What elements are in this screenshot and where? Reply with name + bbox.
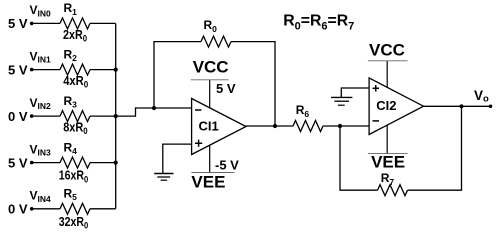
label 32xR0: [59, 215, 88, 231]
node output-feedback junction CI2: [459, 104, 463, 108]
label VEE CI1: [191, 173, 225, 192]
label 5 V input VIN3: [8, 155, 28, 170]
label -5 V rail CI1: [215, 157, 239, 172]
svg-text:VEE: VEE: [371, 153, 405, 172]
op-amp CI1: [192, 99, 246, 155]
node output-feedback junction CI1: [273, 124, 277, 128]
svg-text:5 V: 5 V: [216, 81, 236, 96]
label 2xR0: [63, 28, 87, 44]
wire bus to CI1 inverting input (jog): [116, 108, 192, 116]
label 4xR0: [63, 74, 88, 90]
label R6: [296, 103, 310, 119]
svg-text:4xR0: 4xR0: [63, 74, 88, 90]
wire R6 to CI2 inverting input: [323, 125, 369, 127]
svg-text:VIN3: VIN3: [30, 142, 52, 157]
wire R0 to output vertical: [231, 42, 275, 126]
resistor R3: [60, 111, 90, 122]
svg-text:R4: R4: [64, 140, 78, 156]
wire R7 feedback loop: [340, 126, 378, 190]
label VCC CI2: [369, 40, 405, 59]
label VIN4: [30, 189, 52, 204]
label 5 V input VIN0: [8, 16, 28, 31]
svg-text:CI2: CI2: [376, 98, 396, 113]
svg-text:CI1: CI1: [199, 119, 219, 134]
label R1: [64, 1, 78, 17]
resistor R5: [60, 203, 90, 214]
label VIN2: [30, 96, 52, 111]
label R4: [64, 140, 78, 156]
label VCC CI1: [193, 57, 229, 76]
svg-text:0 V: 0 V: [8, 109, 28, 124]
label 0 V input VIN2: [8, 109, 28, 124]
ground CI2: [331, 97, 352, 105]
power VEE rail CI1: [191, 145, 234, 172]
label Vo: [474, 88, 489, 104]
node VIN1 terminal: [30, 68, 34, 72]
svg-text:Vo: Vo: [474, 88, 489, 104]
wire ground to CI1 non-inverting input: [163, 144, 192, 173]
wire R4 to bus: [90, 162, 116, 164]
node VIN3 terminal: [30, 161, 34, 165]
wire R7 to output vertical: [408, 106, 462, 190]
svg-text:R0: R0: [204, 18, 218, 34]
label CI1: [199, 119, 219, 134]
label R3: [64, 94, 78, 110]
node VIN4 terminal: [30, 207, 34, 211]
wire summing bus vertical: [115, 23, 117, 208]
label R0: [204, 18, 218, 34]
svg-text:16xR0: 16xR0: [59, 169, 88, 185]
label 5 V input VIN1: [8, 62, 28, 77]
svg-text:VCC: VCC: [193, 57, 229, 76]
label R5: [64, 187, 78, 203]
wire CI2 output to Vo: [424, 105, 491, 107]
power VCC rail CI2: [368, 61, 408, 88]
svg-text:R1: R1: [64, 1, 78, 17]
label VIN1: [30, 49, 52, 64]
wire ground to CI2 non-inverting input: [341, 88, 369, 97]
node bus-R2 junction: [114, 68, 118, 72]
svg-text:5 V: 5 V: [8, 16, 28, 31]
wire VIN1 to R2: [32, 69, 60, 71]
wire R2 to bus: [90, 69, 116, 71]
wire VIN2 to R3: [32, 115, 60, 117]
svg-text:VIN4: VIN4: [30, 189, 52, 204]
node bus-R3 junction: [114, 114, 118, 118]
node VIN0 terminal: [30, 22, 34, 26]
resistor R0: [201, 36, 231, 47]
svg-text:VEE: VEE: [191, 173, 225, 192]
svg-text:R0=R6=R7: R0=R6=R7: [283, 13, 354, 33]
resistor R7: [378, 185, 408, 196]
wire VIN3 to R4: [32, 162, 60, 164]
svg-text:R3: R3: [64, 94, 78, 110]
ground CI1: [154, 174, 173, 181]
wire R5 to bus: [90, 208, 116, 210]
label VIN3: [30, 142, 52, 157]
power VEE rail CI2: [368, 125, 408, 154]
svg-text:VCC: VCC: [369, 40, 405, 59]
resistor R2: [60, 64, 90, 75]
wire VIN4 to R5: [32, 208, 60, 210]
label R7: [381, 171, 395, 187]
wire R1 to bus: [90, 22, 116, 24]
svg-text:VIN2: VIN2: [30, 96, 52, 111]
node feedback-input junction: [152, 106, 156, 110]
svg-text:32xR0: 32xR0: [59, 215, 88, 231]
op-amp CI2: [369, 78, 423, 135]
label R2: [64, 47, 78, 63]
svg-text:0 V: 0 V: [8, 202, 28, 217]
svg-text:2xR0: 2xR0: [63, 28, 87, 44]
label 5 V rail CI1: [216, 81, 236, 96]
label title R0=R6=R7: [283, 13, 354, 33]
resistor R4: [60, 157, 90, 168]
svg-text:VIN0: VIN0: [30, 3, 52, 18]
label 0 V input VIN4: [8, 202, 28, 217]
svg-text:8xR0: 8xR0: [63, 121, 88, 137]
label 16xR0: [59, 169, 88, 185]
label VEE CI2: [371, 153, 405, 172]
svg-text:R7: R7: [381, 171, 395, 187]
svg-text:R6: R6: [296, 103, 310, 119]
label VIN0: [30, 3, 52, 18]
svg-text:R5: R5: [64, 187, 78, 203]
node VIN2 terminal: [30, 114, 34, 118]
svg-text:-5 V: -5 V: [215, 157, 239, 172]
label 8xR0: [63, 121, 88, 137]
label CI2: [376, 98, 396, 113]
node bus-R4 junction: [114, 161, 118, 165]
wire VIN0 to R1: [32, 22, 60, 24]
node R6-R7 junction: [338, 124, 342, 128]
resistor R6: [293, 121, 323, 132]
wire CI1 output: [246, 125, 293, 127]
svg-text:R2: R2: [64, 47, 78, 63]
svg-text:5 V: 5 V: [8, 155, 28, 170]
resistor R1: [60, 18, 90, 29]
svg-text:5 V: 5 V: [8, 62, 28, 77]
wire R0 feedback left vertical: [154, 42, 201, 108]
svg-text:VIN1: VIN1: [30, 49, 52, 64]
node Vo terminal: [489, 105, 493, 109]
power VCC rail CI1: [191, 80, 229, 108]
wire R3 to bus: [90, 115, 116, 117]
